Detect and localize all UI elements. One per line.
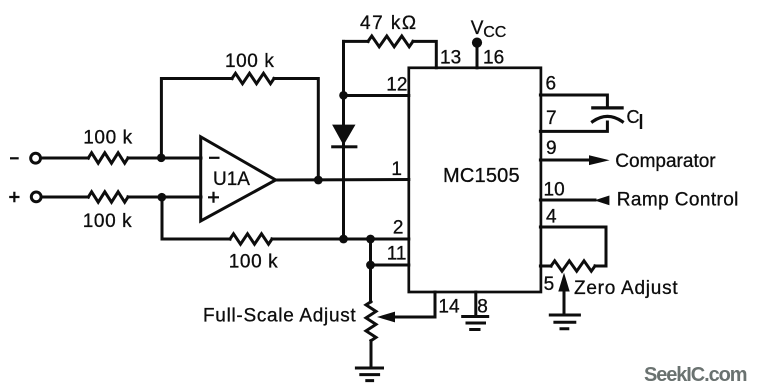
svg-text:13: 13 <box>440 47 461 68</box>
svg-text:1: 1 <box>391 159 402 180</box>
svg-text:7: 7 <box>546 108 557 129</box>
svg-text:9: 9 <box>546 138 557 159</box>
svg-text:V: V <box>471 18 484 39</box>
svg-text:U1A: U1A <box>213 169 250 190</box>
svg-text:Zero Adjust: Zero Adjust <box>574 278 678 299</box>
svg-text:6: 6 <box>546 74 557 95</box>
svg-text:12: 12 <box>386 75 407 96</box>
svg-text:100 k: 100 k <box>83 211 132 232</box>
svg-text:100 k: 100 k <box>225 51 274 72</box>
svg-text:100 k: 100 k <box>83 128 132 149</box>
svg-text:Ramp Control: Ramp Control <box>617 189 739 210</box>
svg-text:Full-Scale Adjust: Full-Scale Adjust <box>203 306 356 327</box>
svg-text:14: 14 <box>438 297 460 318</box>
svg-text:8: 8 <box>477 297 488 318</box>
svg-text:16: 16 <box>483 47 504 68</box>
svg-text:Comparator: Comparator <box>615 151 716 172</box>
svg-text:4: 4 <box>546 207 557 228</box>
svg-text:10: 10 <box>544 180 565 201</box>
svg-text:100 k: 100 k <box>229 252 278 273</box>
svg-text:5: 5 <box>544 274 555 295</box>
svg-text:CC: CC <box>483 24 506 41</box>
svg-text:MC1505: MC1505 <box>443 165 520 187</box>
svg-text:SeekIC.com: SeekIC.com <box>644 364 747 386</box>
svg-text:11: 11 <box>387 244 407 265</box>
svg-text:2: 2 <box>393 218 404 239</box>
svg-text:C: C <box>627 107 640 127</box>
svg-text:47 kΩ: 47 kΩ <box>360 13 418 34</box>
